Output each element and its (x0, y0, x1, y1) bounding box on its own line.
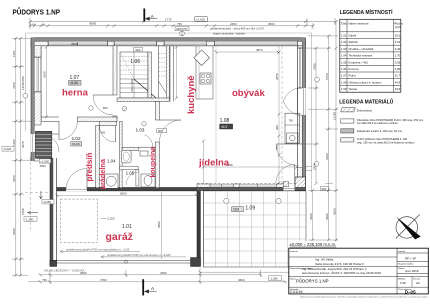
svg-text:2400: 2400 (312, 63, 316, 70)
svg-text:garáž: garáž (106, 231, 133, 243)
svg-text:LEGENDA MÍSTNOSTÍ: LEGENDA MÍSTNOSTÍ (340, 8, 393, 16)
compass north arrow (396, 215, 421, 240)
svg-text:Formát: Formát (398, 250, 405, 253)
top dimension line 1 (30, 18, 335, 25)
stairs 1.06 (120, 52, 156, 98)
svg-text:únor 2015: únor 2015 (405, 269, 419, 273)
svg-text:okapní chodníček – kačírek: okapní chodníček – kačírek (213, 32, 245, 36)
svg-text:2850: 2850 (275, 73, 279, 80)
svg-text:750: 750 (289, 118, 294, 122)
right circled mark (315, 77, 320, 82)
circled mark on top wall (180, 31, 185, 36)
dimension chain right (300, 22, 338, 267)
svg-text:1:50: 1:50 (400, 281, 406, 285)
svg-text:překlad keramický – přímý #30: překlad keramický – přímý #30 mm 3ks +2,… (210, 26, 264, 30)
svg-text:Investor: Investor (290, 250, 298, 253)
svg-text:5800: 5800 (157, 221, 161, 228)
terrain box bottom (269, 276, 282, 281)
svg-text:ŠP + SF: ŠP + SF (405, 256, 416, 261)
swatch obvodove zdivo (341, 119, 354, 123)
svg-text:Karla Hovorky 2174, 190 00 Pra: Karla Hovorky 2174, 190 00 Praha 9 (315, 262, 364, 266)
garage right wall / terrace left edge (197, 191, 204, 267)
dimension chain left (12, 38, 31, 275)
right dim numbers (309, 63, 337, 220)
svg-text:20,2: 20,2 (395, 34, 401, 38)
svg-text:750: 750 (275, 145, 279, 150)
svg-text:3,95: 3,95 (395, 60, 401, 64)
svg-text:1600: 1600 (12, 139, 16, 146)
svg-text:6,40: 6,40 (395, 47, 401, 51)
section mark A bottom (143, 279, 156, 295)
svg-text:1,70: 1,70 (395, 54, 401, 58)
svg-text:-0,020: -0,020 (3, 147, 12, 151)
svg-text:5,16: 5,16 (395, 40, 401, 44)
svg-text:1.01: 1.01 (341, 34, 347, 38)
svg-text:600: 600 (322, 187, 327, 191)
stairs east wall (148, 52, 151, 98)
left level box (2, 147, 14, 152)
svg-text:6600: 6600 (12, 228, 16, 235)
svg-text:4450: 4450 (160, 271, 167, 275)
svg-text:Koupelna + WC: Koupelna + WC (349, 60, 369, 64)
komora 1.06 closet (159, 46, 170, 99)
svg-text:7250: 7250 (100, 278, 107, 282)
obyvak interior dim vertical (215, 46, 281, 185)
svg-text:1.08: 1.08 (341, 80, 347, 84)
svg-text:Komora: Komora (349, 67, 359, 71)
svg-text:Název místnosti: Název místnosti (349, 22, 369, 26)
svg-text:1.03: 1.03 (341, 47, 347, 51)
svg-text:6550: 6550 (120, 192, 127, 196)
svg-text:3250: 3250 (12, 175, 16, 182)
kitchen counter (194, 46, 213, 99)
wall koupelna/WC (120, 166, 139, 169)
terrace grid 1.09 (204, 191, 307, 267)
dimension chain bottom (28, 268, 313, 284)
svg-text:protiskluzový přástřih #730 mm: protiskluzový přástřih #730 mm nad podla… (66, 248, 130, 252)
roof outline top (26, 33, 312, 191)
concrete corner SE (295, 177, 306, 191)
kitchen floor edge (215, 46, 217, 184)
dashed overhang line left (29, 157, 31, 232)
sink diamond (194, 50, 210, 66)
swatch vnitrni zdivo (341, 138, 354, 142)
svg-text:900: 900 (275, 125, 279, 130)
herna interior dim vertical (45, 46, 48, 119)
svg-text:1.01: 1.01 (122, 224, 132, 230)
wall komora east (170, 46, 174, 102)
stove (200, 73, 211, 84)
svg-text:1.05: 1.05 (341, 60, 347, 64)
svg-text:1.02: 1.02 (341, 40, 347, 44)
svg-text:LEGENDA MATERIÁLŮ: LEGENDA MATERIÁLŮ (339, 98, 393, 106)
pradelna east wall (120, 121, 123, 187)
svg-text:3900: 3900 (325, 213, 329, 220)
svg-text:1.06: 1.06 (130, 59, 140, 65)
svg-text:na maltu M2,5 se štukovou omít: na maltu M2,5 se štukovou omítkou (357, 121, 399, 125)
svg-text:4600: 4600 (238, 278, 245, 282)
svg-text:(m2): (m2) (395, 25, 401, 29)
terrace circled marks (224, 198, 229, 203)
south wall living part (197, 184, 306, 191)
svg-text:Číslo: Číslo (341, 21, 348, 26)
svg-text:44,9: 44,9 (395, 80, 401, 84)
door hinge block terrace (283, 182, 288, 187)
svg-text:1.05: 1.05 (126, 171, 135, 176)
entrance steps hatched (35, 131, 51, 158)
door south terrace (276, 165, 295, 184)
right small dim (325, 182, 333, 184)
svg-text:+1,500: +1,500 (40, 159, 49, 163)
garage interior dim (161, 192, 163, 259)
svg-text:1.07: 1.07 (70, 75, 80, 81)
wall herna east (113, 46, 117, 122)
svg-text:750: 750 (42, 278, 47, 282)
down arrow garage drive (40, 191, 43, 199)
svg-text:Stupeň projektu: Stupeň projektu (398, 263, 414, 266)
svg-text:3950: 3950 (332, 208, 336, 215)
koupelna east wall (156, 101, 160, 120)
svg-text:3500: 3500 (268, 22, 275, 26)
svg-text:Garáž: Garáž (349, 34, 357, 38)
door east lower arc (276, 144, 298, 166)
svg-text:1500: 1500 (40, 164, 47, 168)
svg-text:800: 800 (103, 106, 108, 110)
svg-text:11,7: 11,7 (395, 74, 401, 78)
svg-text:2.01/15: 2.01/15 (290, 290, 303, 294)
svg-text:Pokoj: Pokoj (349, 74, 356, 78)
jidelna interior dim (202, 140, 299, 184)
svg-text:1.04: 1.04 (107, 159, 116, 164)
svg-text:Obývací pokoj s k. koutem: Obývací pokoj s k. koutem (349, 80, 382, 84)
svg-text:5750: 5750 (325, 73, 329, 80)
svg-text:Zádveří: Zádveří (349, 40, 359, 44)
door koupelna (139, 135, 153, 148)
slope arrow left (28, 211, 39, 214)
svg-text:Datum: Datum (398, 267, 405, 270)
svg-text:3550: 3550 (71, 42, 78, 46)
svg-text:13150: 13150 (332, 112, 336, 120)
window lines in top wall (48, 43, 298, 44)
svg-text:4,80: 4,80 (395, 67, 401, 71)
svg-text:Terasa: Terasa (349, 87, 358, 91)
right dim ticks (311, 20, 338, 241)
svg-text:44,9: 44,9 (221, 125, 227, 129)
garage interior dim horizontal (56, 194, 199, 197)
door pradelna (99, 126, 115, 143)
koupelna top wall (122, 147, 139, 150)
svg-text:750: 750 (177, 22, 182, 26)
swatch zateplovaci (341, 129, 354, 133)
svg-text:1.09: 1.09 (245, 206, 255, 212)
svg-text:2700: 2700 (21, 208, 25, 215)
door predsin-garage leaf (66, 169, 87, 190)
washbasin koupelna (121, 150, 131, 163)
svg-text:+2,625: +2,625 (196, 17, 206, 21)
svg-text:1.06: 1.06 (341, 67, 347, 71)
svg-text:41,86: 41,86 (70, 81, 78, 85)
svg-text:4870: 4870 (256, 48, 263, 52)
svg-text:jídelna: jídelna (198, 158, 230, 169)
fireplace cabinet obyvak (285, 113, 300, 143)
lintel box 900 (134, 47, 143, 51)
svg-text:Technická místnost: Technická místnost (349, 54, 373, 58)
svg-text:900: 900 (135, 48, 140, 52)
window mullions (78, 42, 258, 186)
wall predsin/chodba top strip (99, 121, 117, 125)
svg-text:resp. 150 mm na maltu M2,5 se: resp. 150 mm na maltu M2,5 se štukovou o… (357, 140, 415, 144)
left dim numbers (12, 50, 25, 235)
svg-text:PŮDORYS 1.NP: PŮDORYS 1.NP (296, 279, 329, 284)
washbasin small (140, 151, 148, 156)
wall herna south (41, 117, 117, 121)
svg-text:19,9: 19,9 (395, 87, 401, 91)
bottom dim numbers (42, 271, 245, 282)
svg-text:předsíň: předsíň (85, 152, 94, 181)
predsin east wall (96, 126, 100, 188)
svg-text:3600: 3600 (42, 71, 46, 78)
svg-text:1.04: 1.04 (341, 54, 347, 58)
dashed overhang line (281, 46, 283, 183)
svg-text:±0,00: ±0,00 (72, 142, 80, 146)
svg-text:2,100: 2,100 (107, 217, 115, 221)
left level box 2 (24, 217, 37, 222)
svg-text:3900: 3900 (309, 213, 313, 220)
svg-text:autorizovaný inženýr, ČKAIT č.: autorizovaný inženýr, ČKAIT č. 0007653 z… (302, 270, 381, 275)
door chodba-jidelna (160, 120, 182, 142)
garage bottom wall / garage door (50, 258, 201, 267)
level box garage wall (42, 200, 54, 204)
svg-text:-1,250: -1,250 (25, 217, 34, 221)
section mark A top (144, 9, 172, 22)
door herna-predsin (59, 121, 77, 139)
wall house/garage boundary (57, 187, 198, 191)
svg-text:1.07: 1.07 (341, 74, 347, 78)
svg-text:2250: 2250 (230, 22, 237, 26)
left exterior wall (31, 38, 41, 161)
svg-text:1.03: 1.03 (136, 127, 145, 132)
svg-text:4750: 4750 (12, 82, 16, 89)
right circled mark 2 (314, 162, 319, 167)
door predsin entrance arc (41, 134, 59, 152)
kitchen interior dim (175, 46, 178, 100)
svg-text:Železobeton: Železobeton (357, 107, 373, 112)
svg-text:6400: 6400 (325, 153, 329, 160)
svg-text:1.09: 1.09 (341, 87, 347, 91)
garage left wall (50, 158, 57, 267)
svg-text:1775: 1775 (165, 18, 172, 22)
svg-text:-0,050: -0,050 (43, 200, 51, 204)
door east top arc (283, 88, 297, 115)
right exterior wall (295, 38, 306, 191)
svg-text:A2: A2 (416, 281, 420, 285)
piers in top wall (31, 41, 48, 46)
swatch zelezobeton (341, 108, 356, 112)
bottom dim ticks (39, 271, 315, 284)
svg-text:18x171x250: 18x171x250 (131, 78, 134, 92)
svg-text:obývák: obývák (232, 88, 265, 99)
svg-text:19,9: 19,9 (233, 208, 239, 212)
svg-text:protiskluzový přástřih #730 mm: protiskluzový přástřih #730 mm pod strop… (107, 253, 171, 257)
chodba lintel box (157, 129, 167, 133)
right level box (321, 186, 329, 190)
svg-text:-1,286: -1,286 (270, 277, 279, 281)
svg-text:kuchyně: kuchyně (186, 75, 197, 114)
svg-text:1.08: 1.08 (220, 118, 230, 124)
svg-text:1350/2700: 1350/2700 (21, 76, 25, 90)
svg-text:1150: 1150 (12, 50, 16, 57)
garage dashed parking (60, 199, 97, 243)
column mark chodba corner (122, 106, 127, 111)
door herna east leaf (93, 95, 113, 115)
svg-text:8800: 8800 (90, 21, 97, 25)
svg-text:koupelna: koupelna (150, 147, 157, 178)
left dim ticks (14, 37, 22, 277)
chodba/koupelna walls (96, 101, 160, 187)
left circled mark (23, 93, 28, 98)
svg-text:PŮDORYS 1.NP: PŮDORYS 1.NP (13, 7, 61, 17)
svg-text:2450: 2450 (312, 163, 316, 170)
washing machine (105, 174, 119, 188)
svg-text:1.02: 1.02 (72, 136, 81, 141)
toilet (141, 174, 155, 187)
svg-text:±0,000 = 235,100 m.n.m.: ±0,000 = 235,100 m.n.m. (290, 242, 337, 247)
svg-text:3870: 3870 (21, 141, 25, 148)
svg-text:2850: 2850 (80, 271, 87, 275)
top exterior wall (31, 38, 306, 46)
svg-text:948/1767: 948/1767 (176, 27, 188, 31)
svg-text:Chodba + schodiště: Chodba + schodiště (349, 47, 374, 51)
svg-text:herna: herna (62, 88, 89, 99)
svg-text:prádelna: prádelna (98, 158, 107, 189)
svg-text:D–05: D–05 (405, 289, 416, 294)
wall under stairs (117, 98, 170, 101)
svg-text:Výkresová a grafická dokumenta: Výkresová a grafická dokumentace je chrá… (300, 295, 429, 298)
top dimension line 2 (30, 23, 313, 29)
svg-text:Zateplovací systém tl. 100 res: Zateplovací systém tl. 100 resp. 50 mm (357, 129, 402, 133)
